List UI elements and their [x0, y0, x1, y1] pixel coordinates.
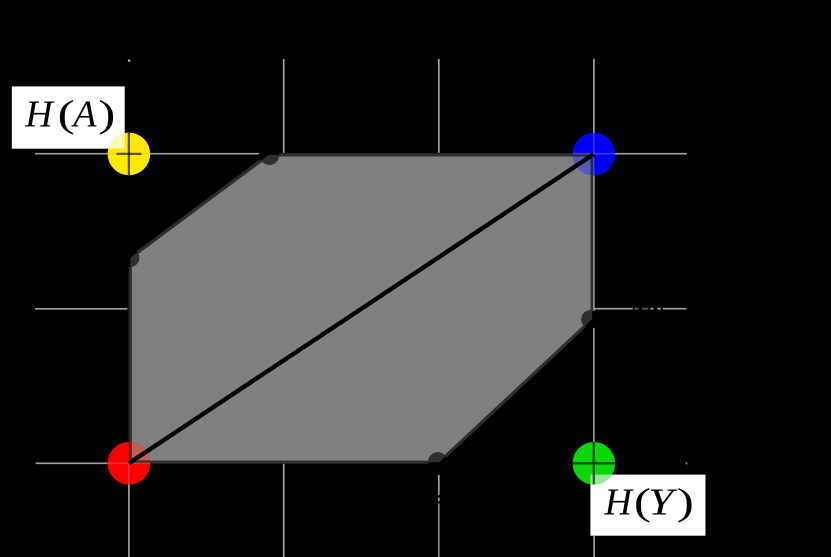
grid line V4 (top segment): [593, 59, 595, 133]
grid line H1 (right segment): [594, 153, 687, 155]
grid line H2 (right dashed segments): [594, 308, 687, 310]
svg-text:): ): [677, 481, 694, 523]
grid line V1 (bottom segment): [128, 485, 130, 557]
cross marker on green point: [573, 442, 616, 485]
svg-text:H: H: [604, 481, 635, 523]
region polygon (gray hexagon with dark edges): [130, 155, 592, 462]
grid line V4 (middle segment over polygon right edge): [593, 157, 595, 442]
svg-text:H: H: [24, 94, 55, 136]
vertex dots (dark gray, clipped to polygon interior): [122, 146, 600, 472]
grid line H3 (left segment): [36, 462, 108, 464]
grid line V1 (top speck): [128, 60, 130, 62]
label text H(A): [24, 93, 115, 136]
svg-text:): ): [98, 93, 115, 135]
diagonal line from red to blue: [129, 154, 594, 463]
grid line H3 (right end speck): [686, 462, 688, 464]
point marker yellow H(A): [106, 131, 152, 175]
grid line V4 (bottom segment below label box): [593, 536, 595, 557]
grid line H1 (y=1 horizontal, left segment): [35, 153, 259, 155]
grid line V2 (bottom segment): [283, 464, 285, 557]
grid line H2 (left segment): [35, 308, 127, 310]
point marker green H(Y): [573, 441, 616, 486]
svg-text:A: A: [70, 94, 97, 136]
label box H(A): [12, 86, 125, 148]
svg-text:(: (: [58, 93, 75, 135]
point marker blue (top-right corner): [571, 132, 616, 177]
grid line V2 (top segment): [283, 59, 285, 153]
grid line V3 (bottom segments): [438, 475, 440, 557]
point marker red (bottom-left corner): [108, 440, 153, 485]
cross marker on yellow point: [117, 133, 142, 176]
label box H(Y): [590, 475, 705, 536]
vertex dots (black base, invisible on background): [122, 146, 600, 472]
grid line V3 (top segment): [438, 59, 440, 153]
